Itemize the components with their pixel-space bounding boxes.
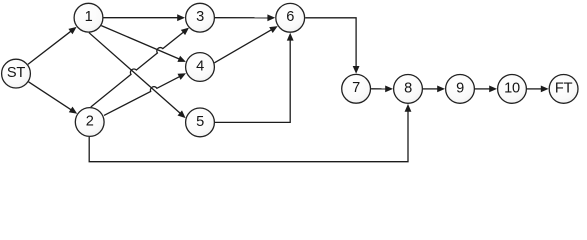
svg-text:FT: FT [555, 80, 573, 96]
svg-text:9: 9 [456, 80, 464, 96]
svg-text:5: 5 [196, 114, 204, 130]
svg-text:ST: ST [7, 65, 25, 81]
svg-text:7: 7 [352, 80, 360, 96]
svg-text:8: 8 [404, 80, 412, 96]
svg-text:3: 3 [196, 9, 204, 25]
svg-text:1: 1 [85, 9, 93, 25]
svg-text:4: 4 [196, 58, 204, 74]
svg-text:6: 6 [286, 9, 294, 25]
svg-text:2: 2 [86, 113, 94, 129]
svg-text:10: 10 [504, 80, 520, 96]
